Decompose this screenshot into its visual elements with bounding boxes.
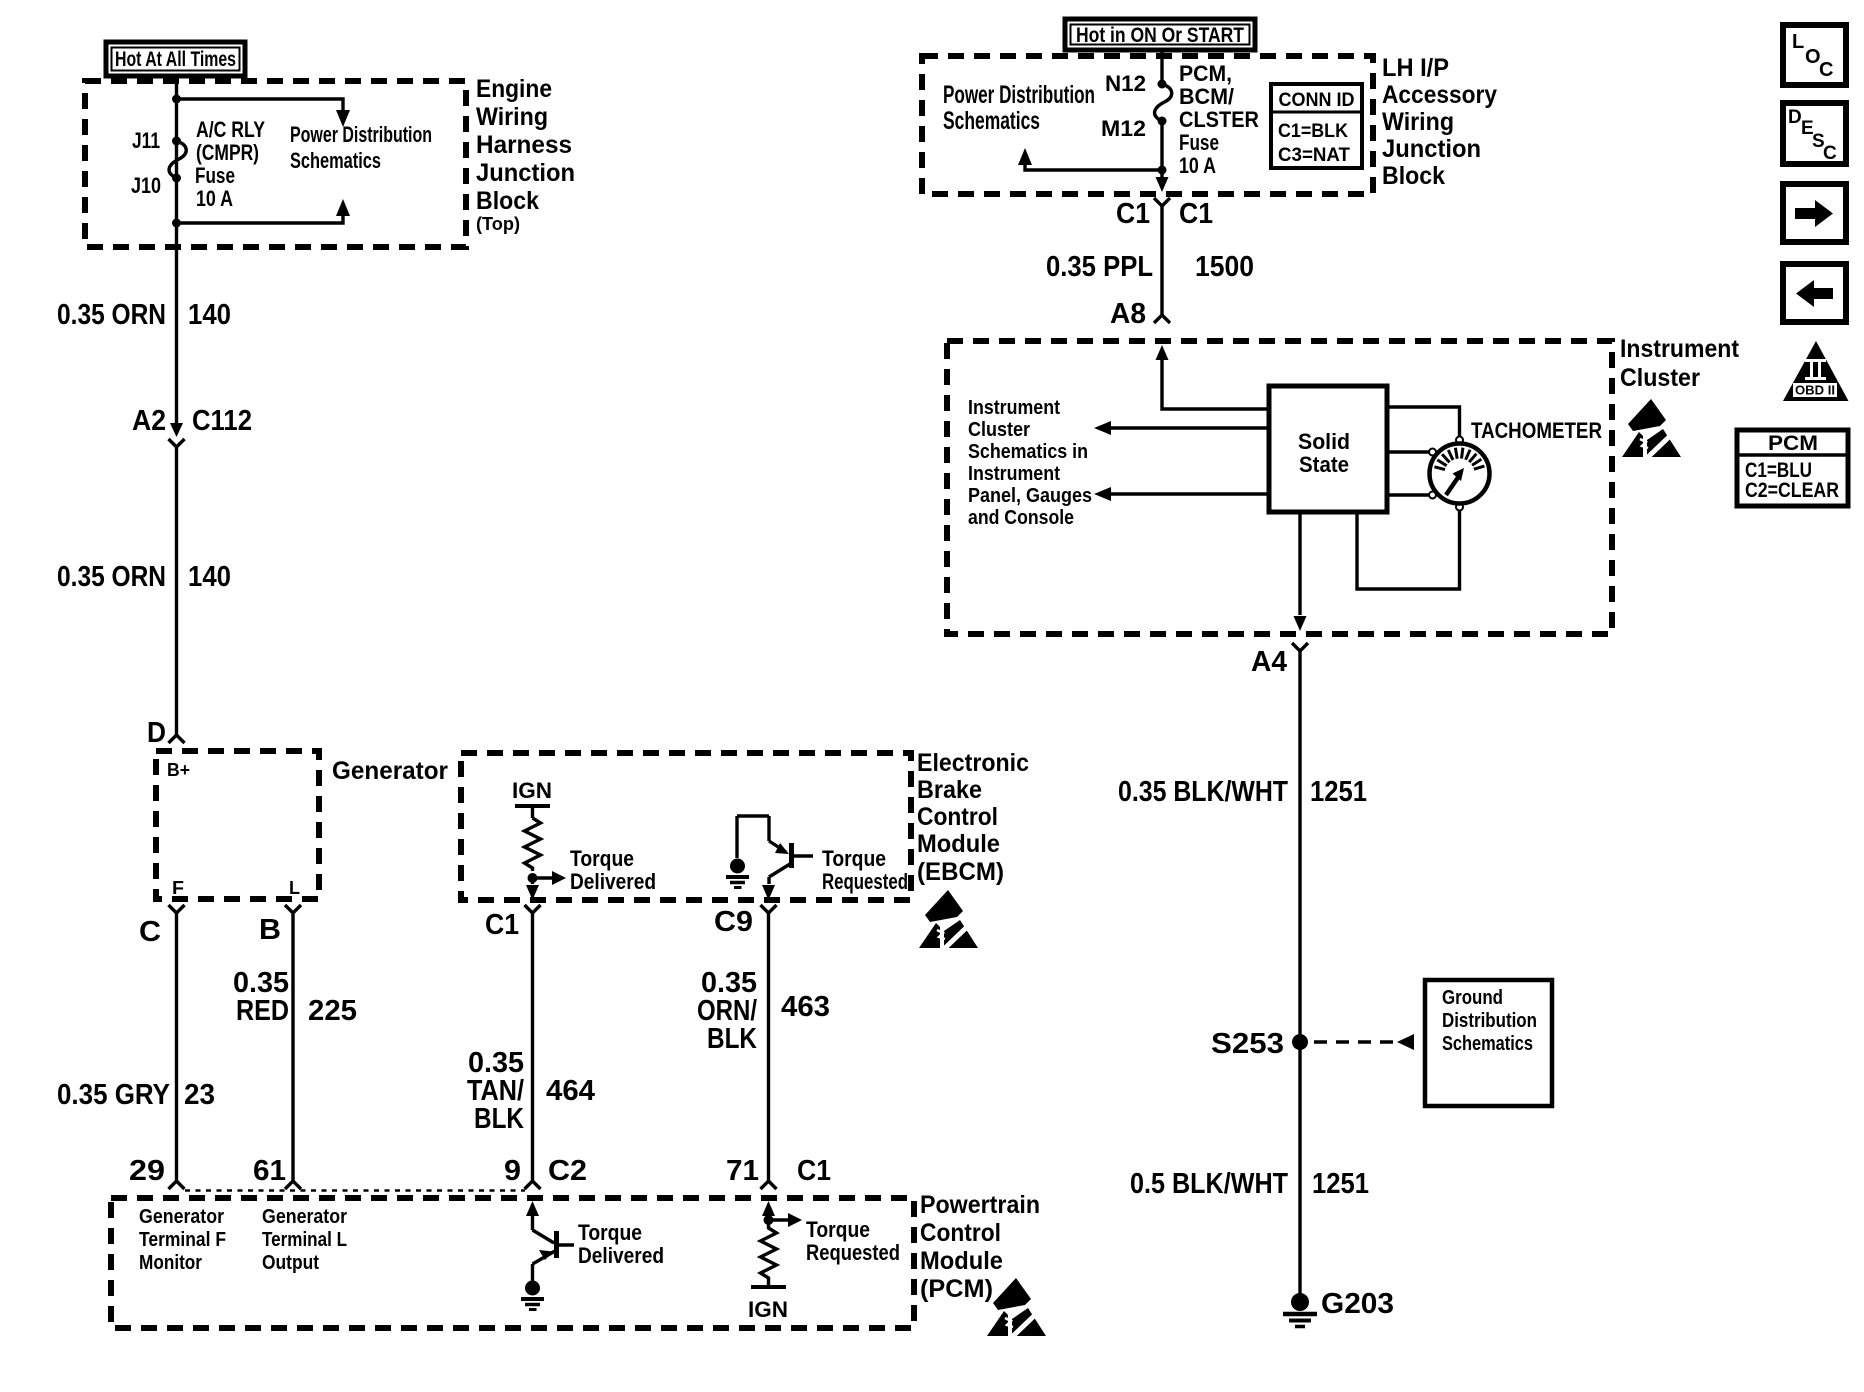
icon LOC box [1783,25,1846,85]
node junction [1158,166,1167,175]
svg-text:Engine: Engine [476,75,552,103]
svg-text:Requested: Requested [822,869,908,894]
svg-text:Schematics in: Schematics in [968,441,1088,463]
svg-text:A/C RLY: A/C RLY [196,117,265,142]
svg-text:1251: 1251 [1310,776,1367,808]
svg-text:71: 71 [726,1155,759,1187]
svg-text:Powertrain: Powertrain [920,1191,1040,1219]
svg-text:CONN ID: CONN ID [1279,90,1355,111]
svg-text:Fuse: Fuse [195,163,235,188]
svg-text:61: 61 [253,1155,286,1187]
svg-text:(CMPR): (CMPR) [196,140,259,165]
label Engine Wiring Harness Junction Block (Top) [476,75,575,234]
transistor (EBCM torque requested) [737,816,813,877]
svg-text:N12: N12 [1105,71,1146,96]
svg-text:225: 225 [308,995,357,1027]
svg-text:Block: Block [1382,162,1445,190]
svg-text:A8: A8 [1110,298,1146,330]
ESD symbol (PCM) [987,1278,1046,1337]
svg-text:140: 140 [188,561,231,593]
label Power Distribution Schematics (engine box) [290,122,432,173]
svg-text:(Top): (Top) [476,214,520,234]
node junction top [172,95,181,104]
svg-text:Generator: Generator [332,757,448,785]
svg-text:PCM,: PCM, [1179,61,1232,86]
svg-text:CLSTER: CLSTER [1179,107,1259,132]
svg-text:Delivered: Delivered [570,869,656,894]
svg-text:0.5 BLK/WHT: 0.5 BLK/WHT [1130,1168,1288,1200]
junction block: LH I/P Accessory Wiring Junction Block (dashed) [922,56,1373,194]
power label Hot At All Times [106,42,245,76]
svg-text:Monitor: Monitor [139,1252,202,1274]
wire 0.35 RED 225 [291,913,294,1181]
label LH I/P Accessory Wiring Junction Block [1382,54,1497,190]
connector A4 [1292,643,1308,651]
svg-text:State: State [1299,452,1349,477]
svg-text:RED: RED [236,995,289,1027]
label Solid State [1298,429,1350,477]
node junction [528,873,538,883]
svg-text:Control: Control [920,1219,1001,1247]
connector face line C2 [185,1189,525,1192]
svg-text:TACHOMETER: TACHOMETER [1471,418,1602,443]
wire arrow up (PCM torque requested pin 71) [762,1201,775,1220]
svg-text:23: 23 [184,1079,215,1111]
wire down with arrow out of EBCM (C9) [762,877,775,900]
wire arrow Torque Delivered [533,871,567,885]
svg-text:(EBCM): (EBCM) [917,858,1004,886]
wire label 0.35 TAN/BLK 464 [467,1047,595,1135]
label Generator Terminal F Monitor [139,1206,226,1274]
svg-text:Distribution: Distribution [1442,1010,1537,1032]
ESD symbol (instrument cluster) [1622,399,1681,458]
svg-text:10 A: 10 A [1179,153,1216,178]
wire label 0.35 RED 225 [233,967,357,1027]
svg-text:Ground: Ground [1442,987,1503,1009]
svg-text:0.35 PPL: 0.35 PPL [1046,251,1153,283]
svg-text:C2: C2 [548,1155,587,1187]
splice S253 [1292,1034,1308,1050]
svg-text:M12: M12 [1101,116,1146,141]
svg-text:Schematics: Schematics [943,107,1040,135]
node IGN (PCM) [748,1287,788,1322]
wire into LH I/P block [1160,50,1163,84]
wire out of cluster with arrow (A4) [1294,512,1307,631]
svg-text:C1: C1 [485,909,519,941]
label box Ground Distribution Schematics [1425,980,1552,1106]
svg-text:J11: J11 [132,128,160,153]
transistor (PCM torque delivered) [526,1201,574,1281]
wire branch to Power Distribution Schematics (down arrow) [177,99,351,127]
node IGN (EBCM) [512,778,552,806]
svg-text:BLK: BLK [707,1023,757,1055]
icon arrow left box [1783,264,1846,322]
svg-text:10 A: 10 A [196,186,233,211]
svg-text:Power Distribution: Power Distribution [290,122,432,147]
wire 0.35 ORN/BLK 463 [767,913,770,1181]
wire IGN to resistor [531,806,534,818]
svg-text:Wiring: Wiring [476,103,548,131]
svg-text:B+: B+ [167,760,190,780]
wire label 0.35 ORN 140 (lower) [57,561,231,593]
svg-text:IGN: IGN [512,778,552,803]
svg-text:Wiring: Wiring [1382,108,1454,136]
fuse J11/J10 A/C RLY (CMPR) Fuse 10 A [169,137,186,183]
resistor (PCM torque requested) [761,1220,777,1285]
ground (PCM) [521,1281,544,1310]
svg-text:C3=NAT: C3=NAT [1278,145,1350,166]
connector C9 (EBCM) [761,905,777,913]
svg-text:OBD II: OBD II [1795,384,1835,398]
svg-text:Requested: Requested [806,1240,900,1265]
svg-text:1251: 1251 [1312,1168,1369,1200]
svg-text:BLK: BLK [474,1103,524,1135]
connector D at generator [169,735,185,743]
svg-text:140: 140 [188,299,231,331]
svg-text:A4: A4 [1251,646,1287,678]
node junction bottom [172,219,181,228]
svg-text:C1=BLK: C1=BLK [1278,121,1348,142]
wire down with arrow out of EBCM [526,878,539,900]
svg-text:Generator: Generator [262,1206,347,1228]
wire solid state to tachometer left lower [1387,493,1429,496]
svg-text:C: C [1823,143,1837,164]
power label Hot in ON Or START [1065,19,1255,50]
label Instrument Cluster Schematics in Instrument Panel, Gauges and Console [968,397,1092,529]
wire out of LH I/P with arrow [1156,170,1169,192]
svg-text:Output: Output [262,1252,319,1274]
wire branch to Power Distribution Schematics (up arrow) [177,199,351,223]
svg-text:Generator: Generator [139,1206,224,1228]
label Torque Requested (EBCM) [822,846,908,894]
svg-text:LH I/P: LH I/P [1382,54,1449,82]
svg-text:Junction: Junction [1382,135,1481,163]
wire dashed to ground distribution [1314,1034,1414,1050]
wire arrow Torque Requested (PCM) [769,1213,803,1227]
PCM box (dashed) [111,1198,914,1328]
ground (EBCM) [726,859,749,888]
svg-text:Fuse: Fuse [1179,130,1219,155]
svg-text:Instrument: Instrument [968,463,1060,485]
label Torque Delivered (EBCM) [570,846,656,894]
label Power Distribution Schematics (LH I/P) [943,81,1095,135]
svg-text:Block: Block [476,187,539,215]
svg-text:Schematics: Schematics [1442,1033,1533,1055]
svg-text:G203: G203 [1321,1288,1394,1320]
wire solid state to tachometer left upper [1387,450,1429,453]
svg-text:Cluster: Cluster [968,419,1030,441]
svg-text:PCM: PCM [1768,432,1818,455]
svg-text:0.35 ORN: 0.35 ORN [57,561,166,593]
svg-text:(PCM): (PCM) [920,1275,993,1303]
svg-text:Torque: Torque [570,846,634,871]
svg-text:Solid: Solid [1298,429,1350,454]
wire solid state to tachometer top [1387,407,1460,436]
svg-text:J10: J10 [131,173,161,198]
wire label 0.5 BLK/WHT 1251 [1130,1168,1369,1200]
connector A8 at cluster [1154,315,1170,323]
wire from Hot At All Times into junction block [175,76,178,424]
EBCM box (dashed) [461,753,911,900]
connector C1 C1 [1154,198,1170,206]
icon PCM connector table C1=BLU C2=CLEAR [1737,430,1848,506]
svg-text:Harness: Harness [476,131,572,159]
svg-text:Terminal L: Terminal L [262,1229,347,1251]
wire 0.35 GRY 23 [175,913,178,1181]
svg-text:L: L [289,878,300,898]
svg-text:Module: Module [917,830,1000,858]
svg-text:Hot in ON Or START: Hot in ON Or START [1076,24,1244,47]
ground G203 [1283,1293,1317,1327]
wire arrow into cluster from A8 [1156,345,1270,409]
svg-text:IGN: IGN [748,1297,788,1322]
svg-text:C9: C9 [714,906,753,938]
instrument cluster box (dashed) [947,341,1612,634]
ESD symbol (EBCM) [919,890,978,949]
node junction (PCM) [764,1215,774,1225]
svg-text:Panel, Gauges: Panel, Gauges [968,485,1092,507]
svg-text:C2=CLEAR: C2=CLEAR [1745,479,1839,502]
junction block: Engine Wiring Harness Junction Block (dashed) [85,81,466,247]
svg-text:A2: A2 [132,405,166,437]
svg-text:C1: C1 [797,1155,831,1187]
connector pin 9 C2 at PCM [525,1181,541,1189]
wire label 0.35 ORN 140 (upper) [57,299,231,331]
svg-text:9: 9 [504,1155,521,1187]
connector C1 (EBCM) [525,905,541,913]
connector B below generator L [285,905,301,913]
wire arrow to cluster schematics (lower) [1094,487,1269,501]
label Electronic Brake Control Module (EBCM) [917,749,1029,886]
svg-text:29: 29 [129,1155,165,1187]
svg-text:Hot At All Times: Hot At All Times [115,48,236,71]
connector A2 C112 [169,423,185,447]
wire label 0.35 BLK/WHT 1251 [1118,776,1367,808]
svg-text:C1: C1 [1116,198,1150,230]
svg-text:Control: Control [917,803,998,831]
svg-text:BCM/: BCM/ [1179,84,1234,109]
wire 0.35 BLK/WHT 1251 [1298,651,1301,1302]
CONN ID table C1=BLK C3=NAT [1271,84,1362,168]
wire 0.35 ORN 140 lower segment [175,447,178,735]
svg-text:C112: C112 [192,405,252,437]
svg-text:D: D [147,717,166,749]
wire tachometer bottom loop to solid state [1357,510,1460,589]
connector pin 29 at PCM [169,1181,185,1189]
svg-text:and Console: and Console [968,507,1074,529]
wire branch to Power Distribution Schematics (up arrow) [1018,148,1162,170]
connector C below generator F [169,905,185,913]
svg-text:B: B [259,914,281,946]
svg-text:Power Distribution: Power Distribution [943,81,1095,109]
svg-text:Module: Module [920,1247,1003,1275]
svg-text:Schematics: Schematics [290,148,381,173]
value label PCM, BCM/ CLSTER Fuse 10 A [1179,61,1259,178]
resistor (EBCM torque delivered) [525,818,541,871]
svg-text:Torque: Torque [806,1217,870,1242]
svg-text:S253: S253 [1211,1028,1284,1060]
wire arrow to cluster schematics (upper) [1094,421,1269,435]
wire 0.35 TAN/BLK 464 [531,913,534,1181]
connector pin 71 C1 at PCM [761,1181,777,1189]
svg-text:C: C [1819,59,1833,81]
svg-text:0.35 GRY: 0.35 GRY [57,1079,170,1111]
label Instrument Cluster (right) [1620,335,1740,392]
svg-text:L: L [1792,31,1804,53]
svg-text:Instrument: Instrument [1620,335,1740,363]
tachometer gauge [1429,437,1490,511]
svg-text:Instrument: Instrument [968,397,1060,419]
svg-text:Electronic: Electronic [917,749,1029,777]
solid state module box [1269,386,1387,512]
wire 0.35 PPL 1500 [1160,206,1163,315]
svg-text:Junction: Junction [476,159,575,187]
fuse N12/M12 PCM BCM/CLSTER Fuse 10 A [1155,80,1172,126]
label Torque Delivered (PCM) [578,1220,664,1268]
svg-text:Brake: Brake [917,776,982,804]
svg-text:464: 464 [546,1075,595,1107]
label Powertrain Control Module (PCM) [920,1191,1040,1303]
svg-text:0.35 BLK/WHT: 0.35 BLK/WHT [1118,776,1288,808]
wire label 0.35 GRY 23 [57,1079,215,1111]
wire label 0.35 PPL 1500 [1046,251,1254,283]
svg-text:Torque: Torque [578,1220,642,1245]
connector pin 61 at PCM [285,1181,301,1189]
svg-text:Accessory: Accessory [1382,81,1497,109]
icon DESC box [1783,103,1846,164]
svg-text:463: 463 [781,991,830,1023]
icon OBD II triangle [1783,341,1849,401]
svg-text:C: C [139,916,161,948]
label Generator Terminal L Output [262,1206,347,1274]
generator box (dashed) [156,751,319,899]
value label A/C RLY (CMPR) Fuse 10 A [195,117,265,211]
svg-text:0.35 ORN: 0.35 ORN [57,299,166,331]
icon arrow right box [1783,184,1846,242]
svg-text:Terminal F: Terminal F [139,1229,226,1251]
label Torque Requested (PCM) [806,1217,900,1265]
svg-text:Torque: Torque [822,846,886,871]
svg-text:Cluster: Cluster [1620,364,1700,392]
svg-text:C1: C1 [1179,198,1213,230]
wire label 0.35 ORN/BLK 463 [697,967,830,1055]
svg-text:Delivered: Delivered [578,1243,664,1268]
svg-text:D: D [1788,107,1802,128]
svg-text:1500: 1500 [1195,251,1254,283]
wire fuse to junction [1160,121,1163,170]
svg-text:F: F [172,878,184,898]
